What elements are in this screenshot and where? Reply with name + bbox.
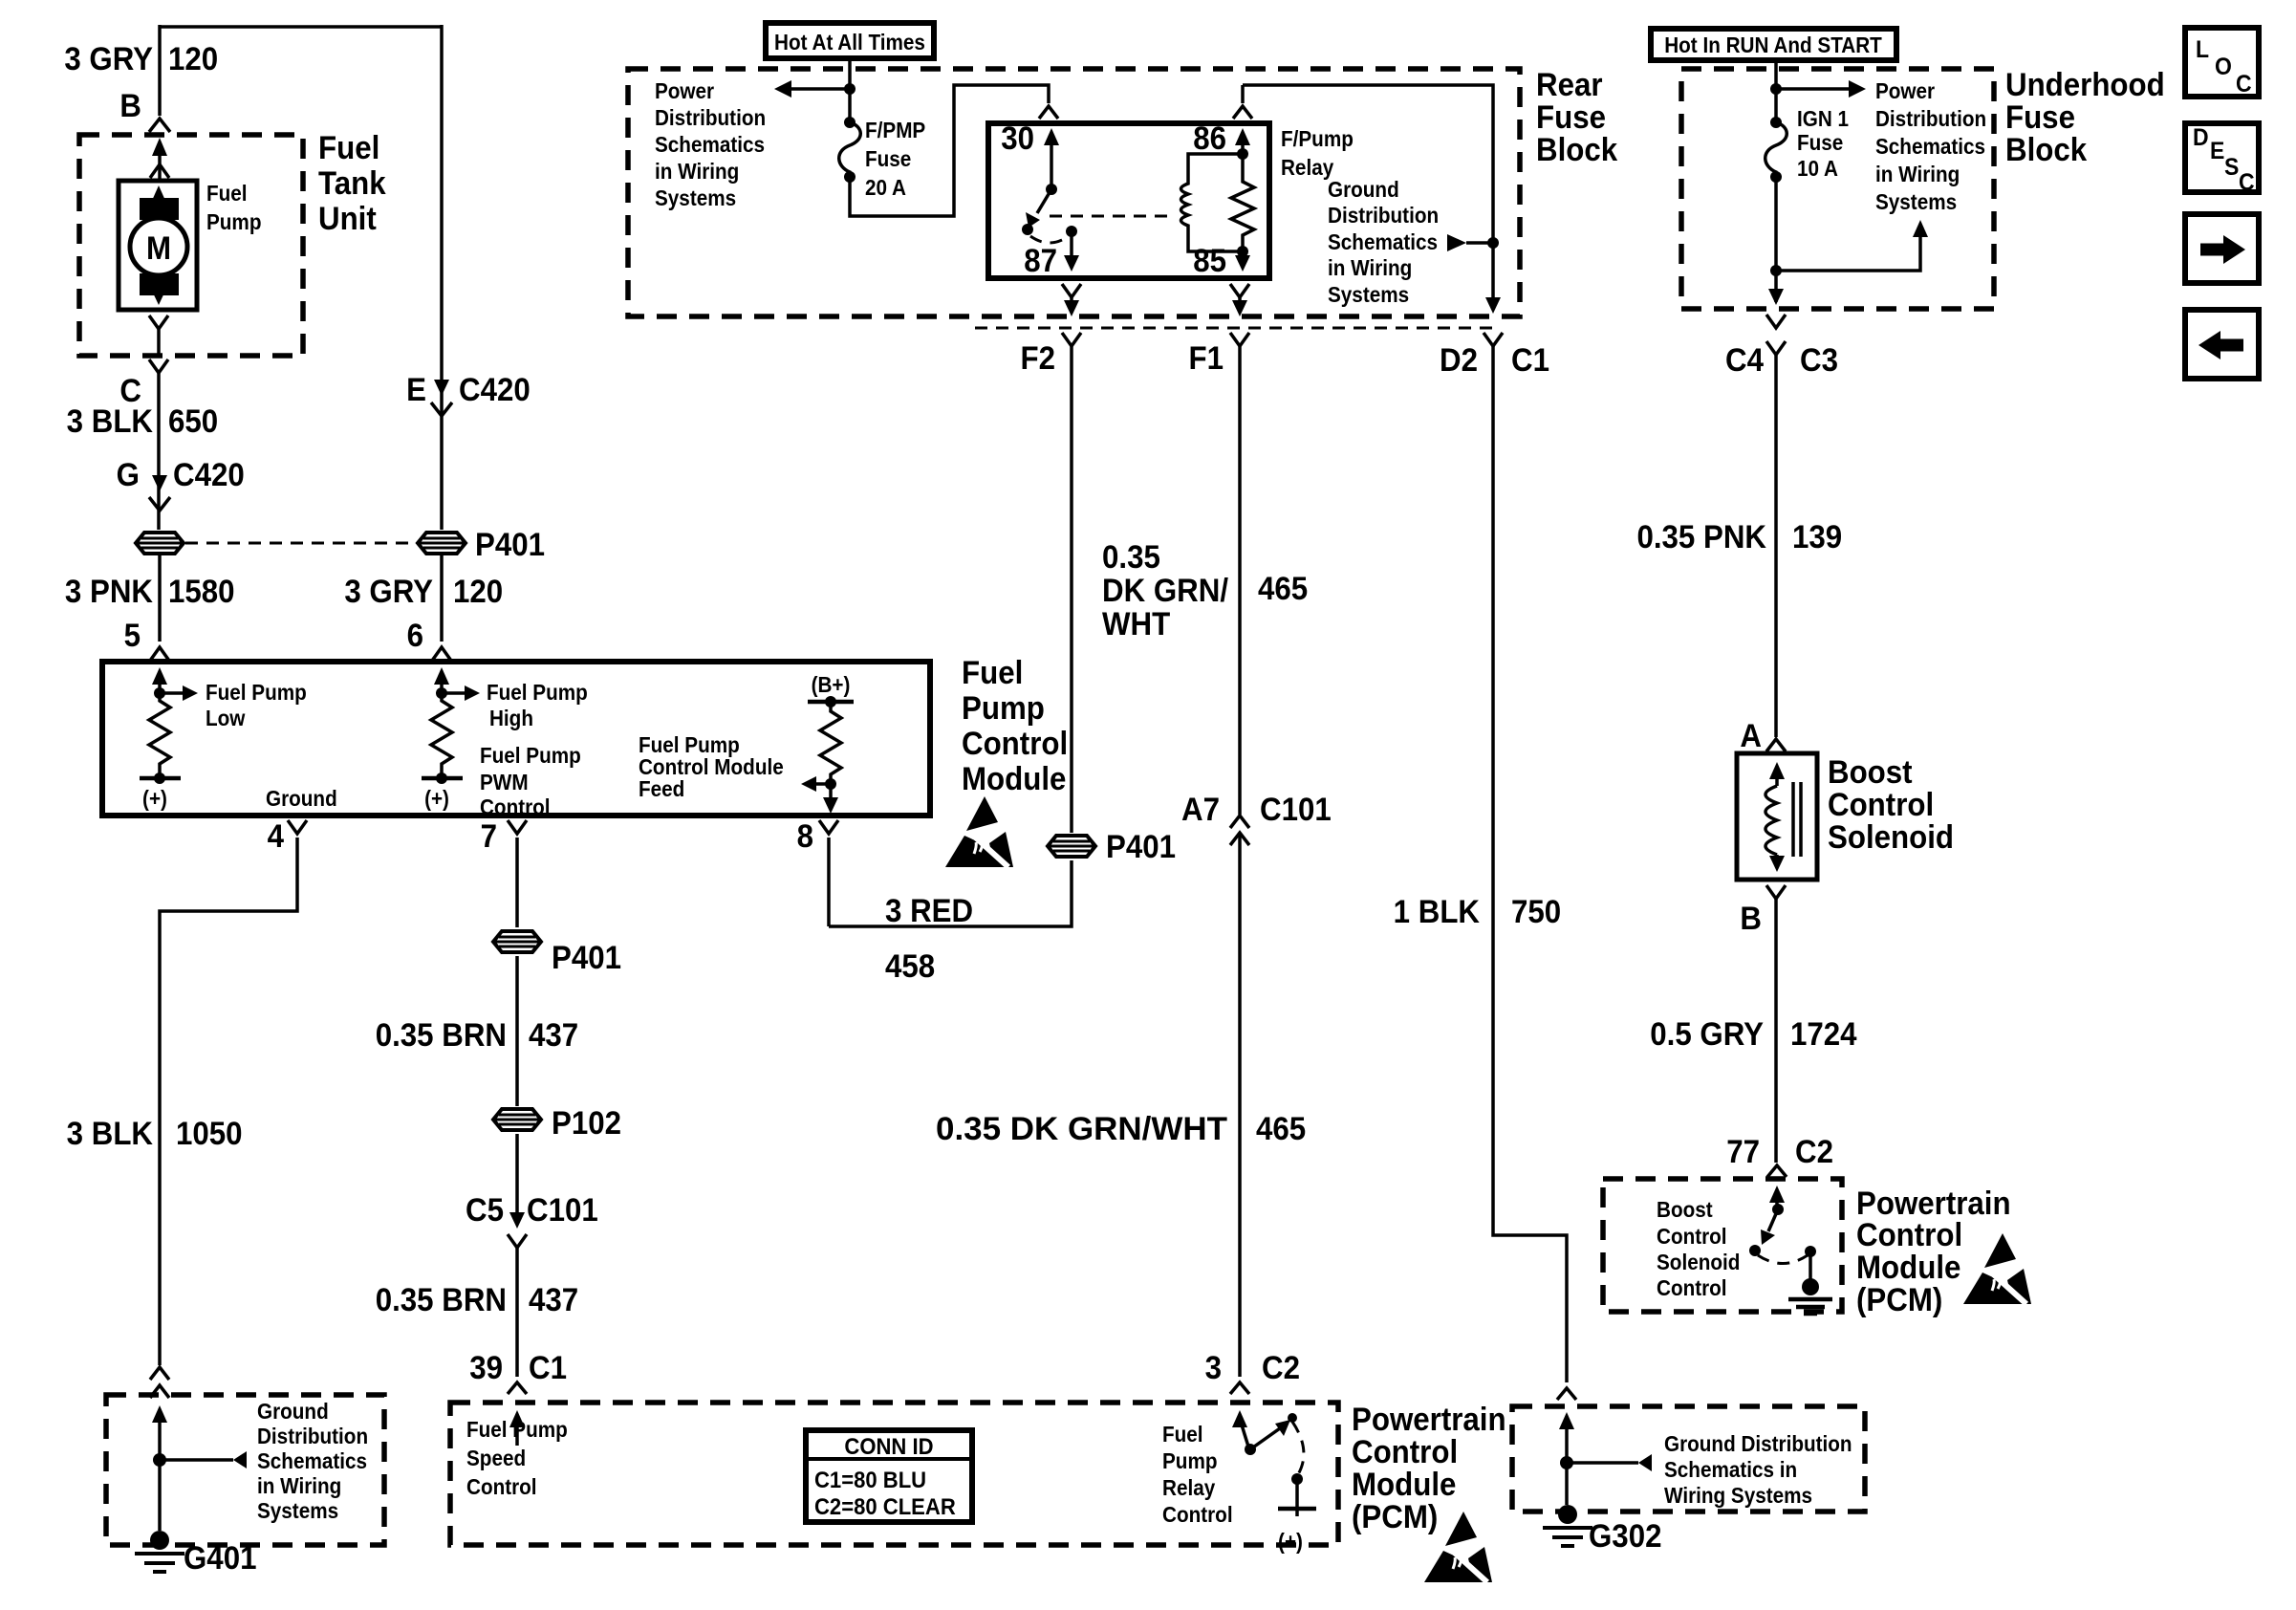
node: coil top bbox=[1237, 148, 1248, 160]
node: coil bottom bbox=[1237, 246, 1248, 257]
svg-text:3 GRY: 3 GRY bbox=[344, 573, 433, 610]
svg-text:Fuel Pump: Fuel Pump bbox=[480, 743, 581, 768]
svg-text:P401: P401 bbox=[1106, 828, 1176, 865]
stub arrow ground distribution bbox=[1466, 241, 1493, 245]
svg-text:P401: P401 bbox=[475, 526, 545, 563]
rear fuse block dashed box bbox=[628, 69, 1520, 316]
relay output F2 exit bbox=[1062, 284, 1081, 297]
svg-text:C4: C4 bbox=[1725, 341, 1764, 379]
svg-text:Speed: Speed bbox=[466, 1446, 526, 1470]
boost switch arm bbox=[1768, 1209, 1778, 1231]
svg-text:Fuel: Fuel bbox=[206, 181, 248, 206]
svg-text:458: 458 bbox=[885, 947, 935, 985]
chevron at pin 5 bbox=[150, 647, 169, 661]
chevron above relay pin 30 bbox=[1039, 106, 1058, 119]
svg-text:Boost: Boost bbox=[1657, 1197, 1713, 1222]
svg-text:30: 30 bbox=[1001, 120, 1034, 157]
svg-text:3 RED: 3 RED bbox=[885, 892, 973, 929]
svg-text:Fuel Pump: Fuel Pump bbox=[466, 1417, 568, 1442]
svg-text:C: C bbox=[2239, 169, 2255, 196]
pin 3 entry arrow inside PCM bbox=[1232, 1410, 1247, 1427]
in-line connector lens left (P401) bbox=[136, 533, 184, 554]
arrow down at underhood exit bbox=[1768, 289, 1784, 305]
svg-text:Control: Control bbox=[480, 794, 551, 819]
svg-text:465: 465 bbox=[1256, 1110, 1306, 1147]
wire from hot box bbox=[848, 58, 852, 122]
svg-text:87: 87 bbox=[1024, 242, 1057, 279]
wire to pin 8 with exit arrow bbox=[829, 784, 833, 801]
node: relay control switch pivot bbox=[1245, 1444, 1256, 1455]
svg-text:Feed: Feed bbox=[639, 776, 684, 801]
wire pump to tank box edge bbox=[157, 329, 161, 356]
svg-text:Control: Control bbox=[466, 1474, 537, 1499]
svg-text:120: 120 bbox=[453, 573, 503, 610]
svg-text:C1=80 BLU: C1=80 BLU bbox=[814, 1467, 926, 1492]
DESC nav box bbox=[2185, 123, 2259, 192]
svg-text:D2: D2 bbox=[1440, 341, 1478, 379]
left arrow nav box bbox=[2185, 310, 2259, 379]
node: relay common bbox=[1046, 184, 1057, 195]
chevron above fuel pump box bbox=[150, 164, 169, 178]
svg-text:F1: F1 bbox=[1188, 339, 1224, 377]
relay pin 30 arrow bbox=[1044, 128, 1059, 145]
wire to G302 ground bbox=[1565, 1463, 1569, 1505]
resistor: fuel pump low bbox=[149, 693, 170, 778]
arrow down inside pump box bbox=[157, 275, 161, 292]
connector chevron at pin B bbox=[149, 119, 170, 132]
contact to internal ground bbox=[1809, 1251, 1812, 1279]
svg-text:C2=80 CLEAR: C2=80 CLEAR bbox=[814, 1493, 956, 1519]
svg-text:E: E bbox=[406, 371, 426, 408]
svg-text:(+): (+) bbox=[424, 786, 449, 811]
svg-text:Fuel Pump: Fuel Pump bbox=[206, 680, 307, 705]
svg-text:Distribution: Distribution bbox=[1875, 106, 1986, 131]
relay switch arm bbox=[1037, 189, 1051, 213]
wire: to C101 bbox=[515, 1134, 519, 1220]
svg-text:G401: G401 bbox=[184, 1539, 256, 1577]
svg-text:Solenoid: Solenoid bbox=[1657, 1250, 1740, 1274]
(+) terminal bar mid bbox=[422, 776, 463, 781]
wire: 0.35 BRN 437 upper bbox=[515, 956, 519, 1106]
resistor: fuel pump high bbox=[431, 693, 452, 778]
arrow up inside G302 box bbox=[1559, 1412, 1574, 1429]
chevron at pin B bbox=[1766, 885, 1786, 899]
svg-text:PWM: PWM bbox=[480, 770, 529, 794]
svg-text:Systems: Systems bbox=[1875, 189, 1957, 214]
underhood fuse block dashed box bbox=[1681, 69, 1994, 309]
svg-text:Pump: Pump bbox=[1162, 1448, 1217, 1473]
wire: 0.35 BRN 437 lower bbox=[515, 1248, 519, 1377]
wire pin 86 feed to C1 bbox=[1243, 85, 1493, 298]
wire below right lens bbox=[440, 555, 444, 642]
svg-text:Control: Control bbox=[962, 725, 1068, 762]
switch arm fuel pump relay control bbox=[1250, 1428, 1280, 1449]
dashed throw arc boost bbox=[1758, 1255, 1808, 1264]
chevron at pin 3 C2 bbox=[1230, 1382, 1249, 1394]
svg-text:DK GRN/: DK GRN/ bbox=[1102, 572, 1228, 609]
svg-text:(+): (+) bbox=[1278, 1529, 1303, 1554]
arrow up inside boost PCM bbox=[1769, 1186, 1785, 1203]
fuel pump motor M circle bbox=[130, 218, 187, 275]
thin dashed link P401 bbox=[185, 542, 416, 545]
svg-text:G: G bbox=[117, 456, 140, 493]
svg-text:Fuel: Fuel bbox=[318, 129, 379, 166]
wire fuse down bbox=[1774, 177, 1778, 302]
svg-text:Relay: Relay bbox=[1162, 1475, 1216, 1500]
svg-text:Ground: Ground bbox=[1328, 177, 1399, 202]
svg-text:Fuse: Fuse bbox=[865, 146, 911, 171]
svg-text:in Wiring: in Wiring bbox=[257, 1473, 341, 1498]
solenoid coil bbox=[1765, 786, 1777, 855]
svg-text:C101: C101 bbox=[527, 1191, 598, 1229]
svg-text:86: 86 bbox=[1193, 120, 1226, 157]
in-line connector P401 (F2) bbox=[1048, 836, 1095, 857]
svg-text:CONN ID: CONN ID bbox=[844, 1433, 933, 1459]
pin 8 chevron and label bbox=[819, 820, 838, 834]
Hot At All Times box bbox=[766, 23, 934, 58]
svg-text:Pump: Pump bbox=[206, 209, 261, 234]
svg-text:Low: Low bbox=[206, 706, 246, 730]
svg-text:C1: C1 bbox=[1511, 341, 1549, 379]
arrow to power distribution note bbox=[791, 87, 850, 91]
svg-text:465: 465 bbox=[1258, 570, 1308, 607]
dashed throw arc relay bbox=[1030, 236, 1069, 243]
svg-text:Power: Power bbox=[655, 78, 715, 103]
svg-text:Control: Control bbox=[1352, 1433, 1458, 1470]
dashed throw arc bbox=[1292, 1422, 1304, 1476]
arrow right Fuel Pump Low bbox=[160, 691, 184, 695]
solenoid arrow up bbox=[1769, 762, 1785, 779]
svg-text:139: 139 bbox=[1792, 518, 1842, 555]
fuel pump box bbox=[119, 181, 197, 310]
resistor: module feed bbox=[820, 702, 841, 784]
svg-text:C2: C2 bbox=[1795, 1133, 1833, 1170]
dashed actuation link bbox=[1050, 215, 1170, 218]
svg-text:Ground Distribution: Ground Distribution bbox=[1664, 1431, 1852, 1456]
chevrons at C4 C3 bbox=[1766, 315, 1786, 328]
svg-text:Systems: Systems bbox=[257, 1498, 338, 1523]
wire: F1 lower to PCM pin 3 bbox=[1238, 833, 1242, 1377]
svg-text:3 PNK: 3 PNK bbox=[65, 573, 153, 610]
svg-text:Underhood: Underhood bbox=[2005, 66, 2165, 103]
svg-text:C420: C420 bbox=[459, 371, 531, 408]
node: boost switch pivot bbox=[1772, 1204, 1784, 1215]
svg-text:O: O bbox=[2215, 54, 2232, 80]
solenoid core bars bbox=[1793, 782, 1801, 857]
powertrain control module dashed box bbox=[450, 1403, 1338, 1545]
svg-text:F/Pump: F/Pump bbox=[1281, 126, 1354, 151]
svg-text:D: D bbox=[2193, 124, 2209, 151]
relay pin 87 arrow down bbox=[1070, 231, 1073, 258]
CONN ID table box bbox=[806, 1430, 972, 1522]
svg-text:Distribution: Distribution bbox=[1328, 203, 1439, 228]
thin dashed connector line bbox=[975, 327, 1493, 330]
svg-text:Fuel: Fuel bbox=[1162, 1422, 1203, 1447]
svg-text:Module: Module bbox=[1352, 1466, 1456, 1503]
svg-text:IGN 1: IGN 1 bbox=[1797, 106, 1849, 131]
svg-text:A: A bbox=[1740, 717, 1762, 754]
svg-text:0.35: 0.35 bbox=[1102, 538, 1160, 576]
svg-text:Module: Module bbox=[1856, 1249, 1960, 1286]
wire: 3 BLK 650 bbox=[157, 373, 161, 530]
svg-text:120: 120 bbox=[168, 40, 218, 77]
svg-text:S: S bbox=[2224, 154, 2239, 181]
svg-text:3 BLK: 3 BLK bbox=[67, 1115, 154, 1152]
svg-text:1580: 1580 bbox=[168, 573, 235, 610]
svg-text:Wiring Systems: Wiring Systems bbox=[1664, 1483, 1812, 1508]
relay coil bbox=[1181, 154, 1244, 251]
wire: drop to fuel tank unit pin B bbox=[158, 25, 162, 116]
svg-text:437: 437 bbox=[529, 1281, 578, 1318]
svg-text:Powertrain: Powertrain bbox=[1352, 1401, 1506, 1438]
svg-text:Schematics: Schematics bbox=[1328, 229, 1438, 254]
F/Pump relay box bbox=[988, 123, 1269, 278]
svg-text:C101: C101 bbox=[1260, 791, 1332, 828]
chevron below pump box bbox=[149, 315, 168, 329]
svg-text:Distribution: Distribution bbox=[257, 1424, 368, 1448]
wire: F1 upper 0.35 DK GRN/WHT 465 bbox=[1238, 346, 1242, 815]
svg-text:M: M bbox=[146, 229, 171, 267]
svg-text:85: 85 bbox=[1193, 242, 1226, 279]
svg-text:C2: C2 bbox=[1262, 1349, 1300, 1386]
module pin5 internal: arrow up bbox=[152, 667, 167, 685]
(+) terminal bar left bbox=[140, 776, 181, 781]
svg-text:10 A: 10 A bbox=[1797, 156, 1838, 181]
arrow up inside pump box bbox=[151, 185, 166, 203]
svg-text:0.35 BRN: 0.35 BRN bbox=[376, 1281, 507, 1318]
svg-text:Distribution: Distribution bbox=[655, 105, 766, 130]
svg-text:WHT: WHT bbox=[1102, 605, 1170, 642]
svg-text:Schematics: Schematics bbox=[655, 132, 765, 157]
svg-text:(+): (+) bbox=[142, 786, 167, 811]
chevron F1 bbox=[1230, 333, 1249, 346]
svg-text:Boost: Boost bbox=[1828, 753, 1913, 791]
svg-text:Block: Block bbox=[1536, 131, 1618, 168]
svg-text:in Wiring: in Wiring bbox=[1875, 162, 1960, 186]
LOC nav box bbox=[2185, 28, 2259, 97]
svg-text:Hot At All Times: Hot At All Times bbox=[774, 30, 925, 54]
ESD symbol module bbox=[945, 796, 1013, 867]
arrow right Fuel Pump High bbox=[442, 691, 466, 695]
svg-text:High: High bbox=[489, 706, 533, 730]
svg-text:Control: Control bbox=[1856, 1216, 1962, 1253]
relay pin 86 arrow bbox=[1235, 128, 1250, 145]
Hot In RUN And START box bbox=[1651, 29, 1896, 60]
svg-text:Solenoid: Solenoid bbox=[1828, 818, 1954, 856]
node: relay NO contact bbox=[1066, 226, 1077, 237]
right arrow nav box bbox=[2185, 214, 2259, 283]
svg-text:(B+): (B+) bbox=[812, 672, 851, 697]
svg-text:3: 3 bbox=[1205, 1349, 1222, 1386]
svg-text:0.35 PNK: 0.35 PNK bbox=[1636, 518, 1766, 555]
svg-text:Control: Control bbox=[1657, 1224, 1727, 1249]
node: G401 junction bbox=[153, 1453, 166, 1467]
svg-text:E: E bbox=[2210, 138, 2224, 164]
wire fuse to relay pin 30 bbox=[850, 85, 1049, 216]
svg-text:Power: Power bbox=[1875, 78, 1936, 103]
stub arrow to ground distribution note (G302) bbox=[1567, 1461, 1638, 1465]
svg-text:3 BLK: 3 BLK bbox=[67, 402, 154, 440]
wire: 3 GRY 120 feed, top horizontal bbox=[160, 25, 442, 29]
svg-text:F/PMP: F/PMP bbox=[865, 118, 925, 142]
wire: F2 to P401 bbox=[1070, 346, 1073, 833]
G401 dashed box bbox=[106, 1395, 384, 1545]
svg-text:Fuel Pump: Fuel Pump bbox=[487, 680, 588, 705]
svg-text:3 GRY: 3 GRY bbox=[64, 40, 153, 77]
svg-text:C3: C3 bbox=[1800, 341, 1838, 379]
svg-text:L: L bbox=[2196, 36, 2209, 63]
svg-text:in Wiring: in Wiring bbox=[1328, 255, 1412, 280]
chevrons at G401 entry bbox=[150, 1367, 169, 1380]
wire: C1 1 BLK 750 to G302 bbox=[1493, 346, 1567, 1382]
svg-text:Unit: Unit bbox=[318, 200, 377, 237]
svg-text:Systems: Systems bbox=[1328, 282, 1409, 307]
svg-text:Module: Module bbox=[962, 760, 1066, 797]
relay pin 85 arrow down bbox=[1241, 251, 1245, 258]
svg-text:Tank: Tank bbox=[318, 164, 386, 202]
svg-text:Schematics: Schematics bbox=[1875, 134, 1985, 159]
wire: right branch 3 GRY 120 to C420 bbox=[440, 25, 444, 530]
arrow up inside G401 box bbox=[152, 1405, 167, 1423]
svg-text:0.5 GRY: 0.5 GRY bbox=[1650, 1015, 1764, 1053]
fuel pump control module box bbox=[102, 662, 930, 816]
svg-text:Rear: Rear bbox=[1536, 66, 1603, 103]
pin 4 chevron and label bbox=[288, 820, 307, 834]
chevron at 39 C1 bbox=[508, 1382, 527, 1394]
node: G302 junction bbox=[1560, 1456, 1573, 1469]
arrow up inside PCM at pin 39 bbox=[509, 1410, 525, 1427]
svg-text:Fuse: Fuse bbox=[1536, 98, 1606, 136]
svg-text:(PCM): (PCM) bbox=[1352, 1498, 1438, 1535]
svg-text:1724: 1724 bbox=[1790, 1015, 1857, 1053]
boost PCM dashed box bbox=[1603, 1179, 1842, 1312]
svg-text:1 BLK: 1 BLK bbox=[1394, 893, 1481, 930]
svg-text:P102: P102 bbox=[552, 1104, 621, 1142]
svg-text:Relay: Relay bbox=[1281, 155, 1334, 180]
svg-text:Control: Control bbox=[1828, 786, 1934, 823]
svg-text:A7: A7 bbox=[1181, 791, 1220, 828]
wire: 0.35 PNK 139 bbox=[1774, 355, 1778, 737]
svg-text:Block: Block bbox=[2005, 131, 2088, 168]
svg-text:in Wiring: in Wiring bbox=[655, 159, 739, 184]
node: boost switch contact bbox=[1805, 1246, 1816, 1257]
branch wire with up arrow bbox=[1776, 235, 1920, 271]
ground G302 bbox=[1543, 1505, 1592, 1546]
stub arrow to ground distribution note bbox=[160, 1458, 233, 1462]
node: feed junction bbox=[844, 83, 856, 95]
wire: 0.5 GRY 1724 bbox=[1774, 899, 1778, 1163]
node: ground distribution tap bbox=[1487, 237, 1499, 249]
svg-text:Control: Control bbox=[1162, 1502, 1233, 1527]
svg-text:Schematics in: Schematics in bbox=[1664, 1457, 1797, 1482]
ESD symbol boost PCM bbox=[1963, 1233, 2031, 1304]
svg-text:(PCM): (PCM) bbox=[1856, 1281, 1942, 1318]
wire from hot in run box bbox=[1774, 60, 1778, 122]
svg-text:Ground: Ground bbox=[266, 786, 337, 811]
relay output F1 exit bbox=[1230, 284, 1249, 297]
fuse F/PMP 20A bbox=[844, 117, 856, 128]
svg-text:Schematics: Schematics bbox=[257, 1448, 367, 1473]
svg-text:1050: 1050 bbox=[176, 1115, 243, 1152]
wire: 3 PNK 1580 bbox=[158, 555, 162, 642]
arrow to power distribution note (underhood) bbox=[1776, 87, 1849, 91]
chevron at G302 entry bbox=[1557, 1388, 1576, 1400]
svg-text:B: B bbox=[1740, 900, 1762, 937]
in-line connector P401 (pin7) bbox=[493, 931, 541, 952]
svg-text:Pump: Pump bbox=[962, 689, 1045, 727]
node: fuel pump high tap bbox=[436, 687, 447, 699]
svg-text:B: B bbox=[119, 87, 141, 124]
svg-text:Ground: Ground bbox=[257, 1399, 329, 1424]
svg-text:20 A: 20 A bbox=[865, 175, 906, 200]
svg-text:Fuse: Fuse bbox=[2005, 98, 2075, 136]
arrow up into tank unit bbox=[152, 138, 167, 156]
module pin6 internal: arrow up bbox=[434, 667, 449, 685]
arrow down C1 exit bbox=[1485, 297, 1501, 314]
boost control solenoid box bbox=[1737, 753, 1817, 880]
svg-text:C420: C420 bbox=[173, 456, 245, 493]
chevron at pin A bbox=[1766, 739, 1786, 751]
svg-text:Fuel: Fuel bbox=[962, 654, 1023, 691]
ESD symbol PCM bbox=[1424, 1512, 1492, 1582]
internal ground (boost PCM) bbox=[1802, 1278, 1819, 1295]
svg-text:Fuse: Fuse bbox=[1797, 130, 1843, 155]
chevron F2 bbox=[1062, 333, 1081, 346]
svg-text:Hot In RUN And START: Hot In RUN And START bbox=[1664, 33, 1882, 57]
wire to G401 ground bbox=[158, 1460, 162, 1531]
chevron above pin 86 bbox=[1233, 106, 1252, 119]
chevron D2 C1 bbox=[1484, 333, 1503, 346]
node: fuel pump low tap bbox=[154, 687, 165, 699]
pin 7 chevron and label bbox=[508, 820, 527, 834]
svg-text:P401: P401 bbox=[552, 939, 621, 976]
solenoid arrow down bbox=[1775, 855, 1779, 860]
svg-text:5: 5 bbox=[124, 617, 141, 654]
fuel tank unit dashed box bbox=[79, 135, 303, 356]
svg-text:0.35 BRN: 0.35 BRN bbox=[376, 1016, 507, 1054]
wire: 3 RED 458 to pin 8 bbox=[829, 838, 1072, 926]
G302 dashed box bbox=[1512, 1406, 1865, 1512]
svg-text:G302: G302 bbox=[1589, 1517, 1661, 1555]
chevron at pin 6 bbox=[432, 647, 451, 661]
svg-text:C: C bbox=[2236, 71, 2252, 98]
chevron at 77 C2 bbox=[1767, 1165, 1787, 1177]
svg-text:7: 7 bbox=[481, 817, 497, 855]
svg-text:650: 650 bbox=[168, 402, 218, 440]
svg-text:77: 77 bbox=[1726, 1133, 1760, 1170]
svg-text:Systems: Systems bbox=[655, 185, 736, 210]
wire: pin 4 ground 3 BLK 1050 bbox=[160, 838, 297, 1365]
node: branch to note arrow bbox=[1770, 265, 1782, 276]
svg-text:39: 39 bbox=[469, 1349, 503, 1386]
in-line connector lens right (P401) bbox=[418, 533, 466, 554]
svg-text:C1: C1 bbox=[529, 1349, 567, 1386]
svg-text:8: 8 bbox=[797, 817, 813, 855]
svg-text:6: 6 bbox=[407, 617, 423, 654]
node: switch contact bbox=[1291, 1473, 1303, 1485]
fuel pump motor brushes bbox=[140, 198, 179, 220]
svg-text:4: 4 bbox=[268, 817, 284, 855]
svg-text:C5: C5 bbox=[466, 1191, 504, 1229]
in-line connector P102 bbox=[493, 1109, 541, 1130]
svg-text:750: 750 bbox=[1511, 893, 1561, 930]
svg-text:Control: Control bbox=[1657, 1275, 1727, 1300]
svg-text:437: 437 bbox=[529, 1016, 578, 1054]
svg-text:F2: F2 bbox=[1020, 339, 1055, 377]
svg-text:0.35 DK GRN/WHT: 0.35 DK GRN/WHT bbox=[936, 1111, 1227, 1147]
chevron below tank unit box bbox=[149, 359, 168, 373]
node: ign feed junction bbox=[1770, 83, 1782, 95]
